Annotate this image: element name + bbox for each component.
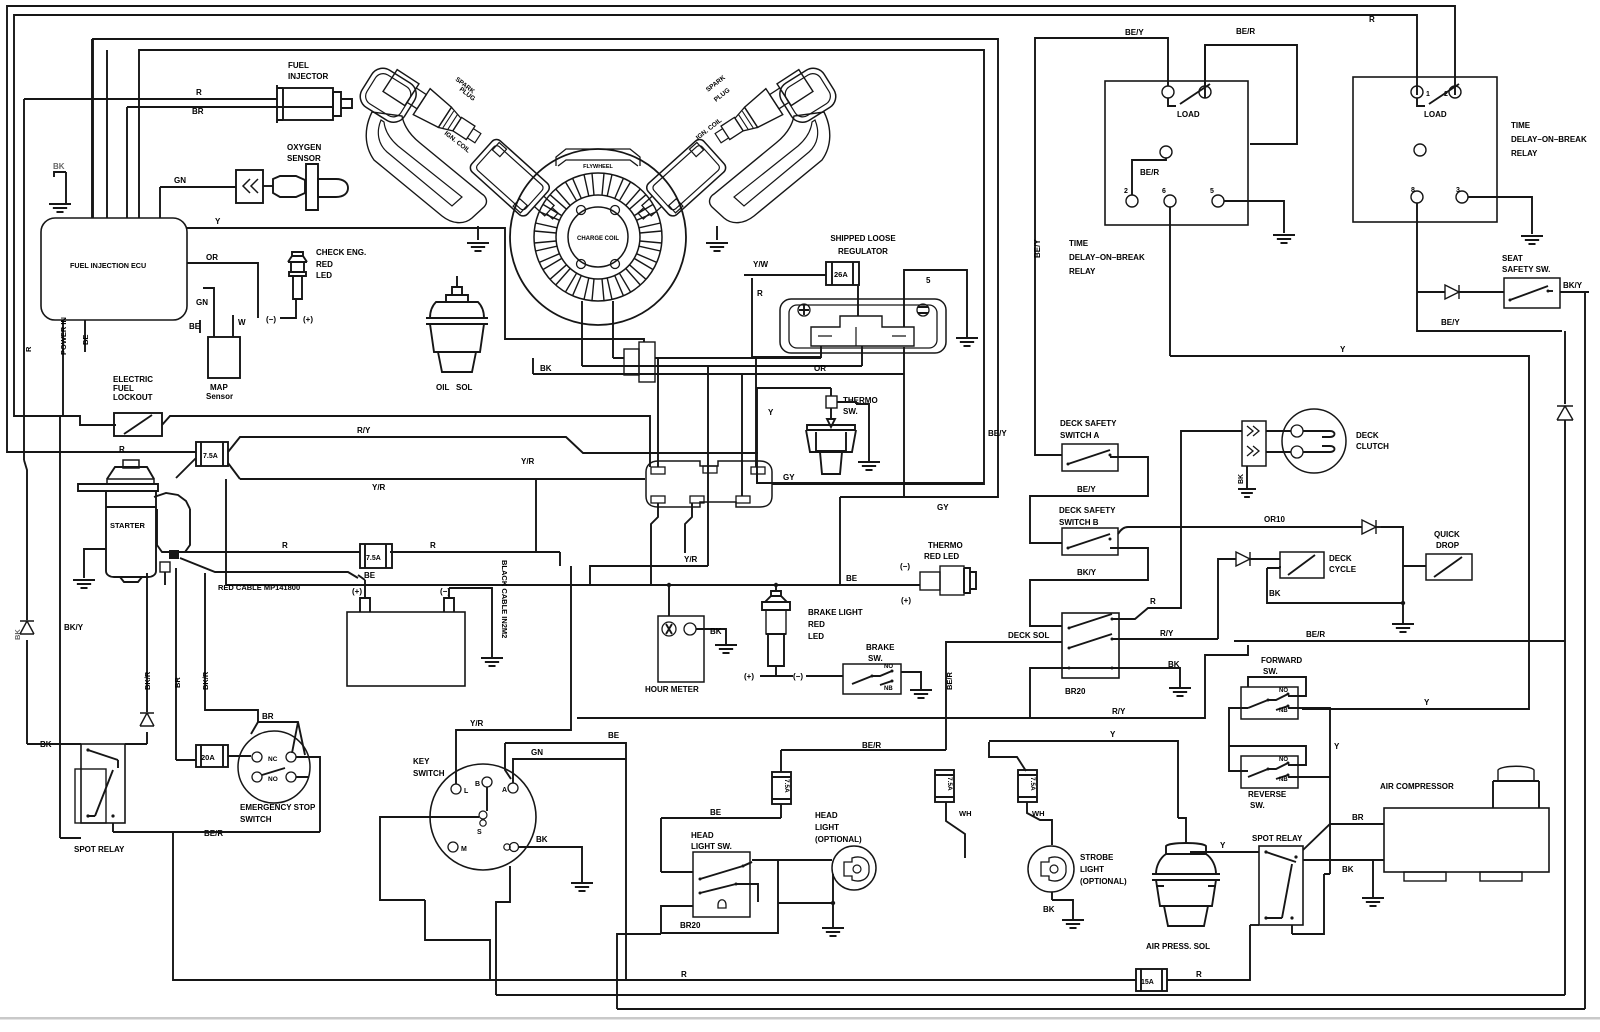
svg-text:SWITCH: SWITCH <box>240 815 272 824</box>
svg-text:STARTER: STARTER <box>110 521 145 530</box>
svg-text:NB: NB <box>884 686 893 692</box>
svg-text:Y/R: Y/R <box>470 719 484 728</box>
wire deck sol bottom loop BR20 <box>1030 668 1069 718</box>
ground air compressor <box>1362 898 1384 906</box>
svg-text:DELAY–ON–BREAK: DELAY–ON–BREAK <box>1069 253 1145 262</box>
svg-text:LIGHT: LIGHT <box>1080 865 1104 874</box>
svg-text:SW.: SW. <box>843 407 858 416</box>
wire OR10 <box>1118 527 1403 566</box>
svg-text:BK: BK <box>1168 660 1180 669</box>
svg-text:WH: WH <box>959 809 972 818</box>
svg-text:M: M <box>461 846 467 853</box>
svg-text:R: R <box>757 289 763 298</box>
svg-text:L: L <box>464 788 469 795</box>
wire starter to fuse2 R <box>180 551 560 553</box>
svg-text:GY: GY <box>937 503 949 512</box>
svg-text:15A: 15A <box>1141 979 1154 986</box>
svg-text:BE: BE <box>710 808 722 817</box>
wire head sw to head light <box>743 860 832 866</box>
svg-text:7.5A: 7.5A <box>783 779 790 793</box>
svg-text:Y: Y <box>1340 345 1346 354</box>
wire spot relay right wires <box>1303 824 1384 850</box>
ignition coil body right <box>628 137 728 233</box>
svg-text:Y: Y <box>1424 698 1430 707</box>
svg-text:NC: NC <box>268 756 278 763</box>
svg-text:(−): (−) <box>793 672 803 681</box>
svg-text:NO: NO <box>884 664 893 670</box>
wire BE gray <box>199 320 201 333</box>
svg-text:BE/Y: BE/Y <box>1033 239 1042 258</box>
svg-text:SW.: SW. <box>868 654 883 663</box>
svg-text:CHARGE COIL: CHARGE COIL <box>577 236 619 242</box>
svg-text:RED: RED <box>808 620 825 629</box>
svg-text:HEAD: HEAD <box>691 831 714 840</box>
wire forward sw loop <box>1248 677 1306 696</box>
svg-text:BE/R: BE/R <box>204 829 223 838</box>
wire connector pin feeds <box>658 358 756 566</box>
svg-text:R: R <box>681 970 687 979</box>
wire W <box>232 315 234 337</box>
wire thermo right to ground <box>837 402 869 462</box>
svg-text:6: 6 <box>1162 188 1166 195</box>
fuse F2 7.5A <box>360 544 392 568</box>
svg-text:RELAY: RELAY <box>1069 267 1096 276</box>
svg-text:BK: BK <box>1238 474 1245 484</box>
svg-text:BK: BK <box>710 627 722 636</box>
wire quick drop to junction <box>1403 565 1426 567</box>
svg-text:BK/Y: BK/Y <box>1077 568 1097 577</box>
box lower mid section <box>839 497 841 585</box>
wire battery to bus <box>559 552 561 566</box>
wire air sol top <box>1178 818 1186 842</box>
svg-text:LED: LED <box>808 632 824 641</box>
engine box inner <box>139 50 984 484</box>
svg-text:Y/R: Y/R <box>521 457 535 466</box>
flywheel bolts <box>577 206 586 215</box>
svg-text:FUEL: FUEL <box>288 61 309 70</box>
wire Y/W to fuse <box>744 274 826 276</box>
svg-text:BE/Y: BE/Y <box>988 429 1007 438</box>
svg-text:R: R <box>282 541 288 550</box>
svg-text:SAFETY SW.: SAFETY SW. <box>1502 265 1550 274</box>
diode D deck cycle <box>1236 552 1250 566</box>
engine box outer <box>93 39 998 497</box>
component MAP sensor <box>208 337 240 378</box>
scan artifact bottom line <box>0 1017 1600 1020</box>
svg-text:CLUTCH: CLUTCH <box>1356 442 1389 451</box>
wire key switch bottom to bus <box>496 866 510 995</box>
svg-text:BE/Y: BE/Y <box>1077 485 1096 494</box>
wire starter branch down <box>147 568 205 585</box>
component thermo switch <box>826 396 837 408</box>
svg-text:SW.: SW. <box>1263 667 1278 676</box>
fuse F4 7.5A vertical <box>772 772 791 804</box>
wire 20A to estop <box>228 755 251 757</box>
svg-text:R/Y: R/Y <box>1112 707 1126 716</box>
wire estop top BR <box>251 722 305 755</box>
svg-text:LED: LED <box>316 271 332 280</box>
fuse 26A <box>826 262 859 285</box>
wire R main perimeter top-left <box>7 6 1455 452</box>
plug boot cap right <box>775 63 841 127</box>
svg-text:ELECTRIC: ELECTRIC <box>113 375 153 384</box>
svg-text:BK: BK <box>1043 905 1055 914</box>
fuse F7 15A <box>1136 969 1167 991</box>
svg-text:MAP: MAP <box>210 383 228 392</box>
wire Y/R lower <box>228 463 645 553</box>
wire riser to spot relay <box>1250 924 1259 926</box>
svg-text:(OPTIONAL): (OPTIONAL) <box>1080 877 1127 886</box>
svg-text:AIR COMPRESSOR: AIR COMPRESSOR <box>1380 782 1454 791</box>
svg-text:26A: 26A <box>834 270 848 279</box>
wire from lockout right east <box>162 416 650 467</box>
svg-text:Y: Y <box>768 408 774 417</box>
svg-text:BR: BR <box>262 712 274 721</box>
wire Y/R to key switch <box>225 479 227 585</box>
svg-text:TIME: TIME <box>1511 121 1531 130</box>
switch key ignition <box>430 764 536 870</box>
svg-text:BE: BE <box>608 731 620 740</box>
wire head light bottom link <box>778 902 833 904</box>
svg-text:DECK: DECK <box>1356 431 1379 440</box>
svg-text:1: 1 <box>1426 91 1430 98</box>
svg-text:DECK SOL: DECK SOL <box>1008 631 1049 640</box>
svg-text:DECK SAFETY: DECK SAFETY <box>1059 506 1116 515</box>
wire to check LED <box>280 299 296 318</box>
wire key switch A GN <box>513 759 626 783</box>
wire deck B loops <box>1030 548 1148 626</box>
wire R to injector <box>23 99 25 460</box>
wire engine bus 3 BK <box>533 347 904 374</box>
wire reverse out <box>1288 776 1330 778</box>
motor starter <box>123 460 139 468</box>
wire starter ground <box>84 549 106 578</box>
spark plug stepped body left <box>381 68 486 151</box>
svg-text:R: R <box>196 88 202 97</box>
diode D left1 <box>20 621 34 634</box>
svg-text:KEY: KEY <box>413 757 430 766</box>
svg-text:Y: Y <box>1110 730 1116 739</box>
svg-text:SPOT RELAY: SPOT RELAY <box>74 845 125 854</box>
svg-text:AIR PRESS. SOL: AIR PRESS. SOL <box>1146 942 1210 951</box>
wire thermo left Y <box>757 388 831 483</box>
plug boot band right <box>710 112 830 223</box>
wire GN to oxygen sensor <box>160 186 236 188</box>
svg-text:HEAD: HEAD <box>815 811 838 820</box>
svg-text:WH: WH <box>1032 809 1045 818</box>
svg-text:LOAD: LOAD <box>1424 110 1447 119</box>
wire BK/Y drop from bus <box>59 416 61 420</box>
wire hour meter BK ground <box>696 629 726 645</box>
svg-text:LOAD: LOAD <box>1177 110 1200 119</box>
svg-text:BK/Y: BK/Y <box>1563 281 1583 290</box>
svg-text:THERMO: THERMO <box>928 541 963 550</box>
svg-text:20A: 20A <box>201 753 215 762</box>
svg-text:BE/R: BE/R <box>1140 168 1159 177</box>
svg-text:SWITCH B: SWITCH B <box>1059 518 1099 527</box>
wire reverse loop <box>1229 746 1306 765</box>
svg-text:BRAKE LIGHT: BRAKE LIGHT <box>808 608 863 617</box>
wire spot relay bottom BE/R <box>113 823 196 832</box>
svg-text:NB: NB <box>1279 708 1288 714</box>
svg-text:GN: GN <box>531 748 543 757</box>
svg-text:INJECTOR: INJECTOR <box>288 72 329 81</box>
svg-text:BR20: BR20 <box>680 921 701 930</box>
svg-text:QUICK: QUICK <box>1434 530 1460 539</box>
wire forward-reverse link <box>1229 708 1330 874</box>
wire fuse5 <box>946 802 965 858</box>
svg-text:LOCKOUT: LOCKOUT <box>113 393 153 402</box>
wire relay2 pin3 ground <box>1468 197 1532 234</box>
plug boot band left <box>366 112 486 223</box>
svg-text:REVERSE: REVERSE <box>1248 790 1287 799</box>
svg-text:GY: GY <box>783 473 795 482</box>
wire BK/R vertical 1 <box>146 585 148 744</box>
wire brake LED bottom <box>760 666 793 676</box>
svg-text:RED LED: RED LED <box>924 552 959 561</box>
relay spot left <box>81 744 125 823</box>
svg-text:SWITCH A: SWITCH A <box>1060 431 1099 440</box>
diode D-right on x1565 <box>1557 406 1573 420</box>
svg-text:7.5A: 7.5A <box>366 555 381 562</box>
svg-text:Y: Y <box>215 217 221 226</box>
svg-text:RED: RED <box>316 260 333 269</box>
svg-text:(+): (+) <box>744 672 754 681</box>
svg-text:OR: OR <box>206 253 218 262</box>
svg-text:Y/W: Y/W <box>753 260 769 269</box>
wire BE bus <box>226 584 920 586</box>
wire GN gray <box>203 288 214 337</box>
LED check engine red <box>288 252 307 262</box>
svg-text:R: R <box>1150 597 1156 606</box>
wire BE/R bottom y980 <box>173 832 1250 980</box>
svg-text:SPOT RELAY: SPOT RELAY <box>1252 834 1303 843</box>
svg-text:S: S <box>477 829 482 836</box>
svg-text:(+): (+) <box>901 596 911 605</box>
svg-text:BE: BE <box>81 335 90 345</box>
svg-text:BR20: BR20 <box>1065 687 1086 696</box>
svg-text:7.5A: 7.5A <box>1029 777 1036 791</box>
fuse F6 7.5A vertical <box>1018 770 1037 802</box>
switch reverse <box>1241 756 1298 788</box>
svg-text:7.5A: 7.5A <box>946 777 953 791</box>
wires out connector bottom <box>651 503 692 585</box>
wire BR vertical <box>176 585 196 760</box>
flywheel label plate <box>556 149 640 166</box>
svg-text:BE: BE <box>189 322 201 331</box>
svg-text:2: 2 <box>1124 188 1128 195</box>
wire GY from connector <box>757 472 984 483</box>
lamp strobe light optional <box>1028 846 1074 892</box>
relay time delay-on-break left K1 <box>1105 81 1248 225</box>
wire head light sw bottom loop BR20 <box>661 860 778 933</box>
wire BE pin <box>84 320 86 352</box>
svg-text:OIL: OIL <box>436 383 449 392</box>
svg-text:TIME: TIME <box>1069 239 1089 248</box>
wire fuse to contact <box>857 286 859 316</box>
wire BR to injector right <box>127 107 334 218</box>
svg-text:BR: BR <box>1352 813 1364 822</box>
svg-text:BE/Y: BE/Y <box>1125 28 1144 37</box>
wire right border riser 2 <box>1560 292 1585 1009</box>
wire BE/R perimeter inner <box>14 15 1417 425</box>
svg-text:Y/R: Y/R <box>372 483 386 492</box>
svg-text:BE/R: BE/R <box>1236 27 1255 36</box>
wire relay1 pin wires <box>1035 38 1168 455</box>
svg-text:3: 3 <box>1456 187 1460 194</box>
wire key switch S left loop <box>380 817 490 980</box>
svg-text:R: R <box>430 541 436 550</box>
svg-text:(−): (−) <box>266 315 276 324</box>
svg-text:B: B <box>475 781 480 788</box>
svg-text:POWER IN: POWER IN <box>59 317 68 355</box>
diode D seat <box>1445 285 1459 299</box>
wire Y/R mid <box>590 566 708 585</box>
ground below left coil <box>477 226 479 240</box>
wire spot relay bottom <box>1292 874 1330 934</box>
wire deck cycle bottom loop BK <box>1267 566 1403 603</box>
svg-text:CYCLE: CYCLE <box>1329 565 1357 574</box>
wire deck sol R top <box>1112 524 1181 619</box>
svg-text:SEAT: SEAT <box>1502 254 1523 263</box>
wire spot relay top wires <box>27 743 147 745</box>
wire fuse4 wires <box>661 750 946 872</box>
wire relay1 pin5 ground <box>1224 201 1284 233</box>
svg-text:BK: BK <box>536 835 548 844</box>
component hour meter <box>658 616 704 682</box>
wire brake sw ground <box>901 672 921 690</box>
svg-text:BRAKE: BRAKE <box>866 643 895 652</box>
wire red cable label <box>180 558 358 578</box>
solenoid deck cycle <box>1280 552 1324 578</box>
wire head light down <box>832 874 834 928</box>
svg-text:R/Y: R/Y <box>1160 629 1174 638</box>
relay time delay-on-break right K2 <box>1353 77 1497 222</box>
battery 12V <box>347 612 465 686</box>
solenoid air pressure <box>1156 854 1216 874</box>
svg-text:FUEL INJECTION ECU: FUEL INJECTION ECU <box>70 261 146 270</box>
svg-text:DELAY–ON–BREAK: DELAY–ON–BREAK <box>1511 135 1587 144</box>
svg-text:OR: OR <box>814 364 826 373</box>
svg-text:BR: BR <box>173 677 182 688</box>
switch emergency stop <box>238 731 310 803</box>
svg-text:A: A <box>502 787 507 794</box>
svg-text:R: R <box>24 346 33 352</box>
svg-text:GN: GN <box>196 298 208 307</box>
svg-text:BK/R: BK/R <box>143 671 152 690</box>
regulator connector body <box>780 299 946 353</box>
wire estop right <box>296 757 320 800</box>
flywheel stator assembly <box>510 149 686 325</box>
svg-text:BK: BK <box>1342 865 1354 874</box>
wire LED to bus <box>840 584 920 586</box>
svg-text:R: R <box>1196 970 1202 979</box>
wire regulator pin5 loop <box>904 270 967 338</box>
wire fuse to starter diagonal <box>176 458 196 478</box>
wire OR from ECU right <box>187 263 258 318</box>
wire key G BK to ground <box>519 847 582 883</box>
spark plug stepped body right <box>710 68 815 151</box>
op-box fuel injection ECU U1 <box>41 218 187 320</box>
svg-text:BE/R: BE/R <box>862 741 881 750</box>
svg-text:8: 8 <box>1411 187 1415 194</box>
fuse F1 7.5A <box>196 442 228 466</box>
svg-text:DECK: DECK <box>1329 554 1352 563</box>
svg-text:SWITCH: SWITCH <box>413 769 445 778</box>
ground below right coil <box>716 226 718 240</box>
wire battery plus <box>358 575 365 598</box>
svg-text:BLACK CABLE IN2M2: BLACK CABLE IN2M2 <box>500 560 509 638</box>
svg-text:RED CABLE MP141800: RED CABLE MP141800 <box>218 583 300 592</box>
fuse F3 20A <box>196 745 228 767</box>
wire deck sol R/Y <box>1112 638 1218 640</box>
svg-text:DECK SAFETY: DECK SAFETY <box>1060 419 1117 428</box>
wire Y to spot relay <box>1190 851 1259 853</box>
wire fuse6 <box>989 742 1052 845</box>
wire relay2 pin8 to seat <box>1417 203 1562 331</box>
svg-text:W: W <box>238 318 246 327</box>
ground regulator <box>956 338 978 346</box>
regulator inner contacts <box>811 316 914 346</box>
svg-text:(−): (−) <box>900 562 910 571</box>
svg-text:BR: BR <box>192 107 204 116</box>
svg-text:BK/Y: BK/Y <box>64 623 84 632</box>
svg-text:OR10: OR10 <box>1264 515 1285 524</box>
connector 6-pin main harness <box>646 461 772 507</box>
svg-text:BK: BK <box>540 364 552 373</box>
wire power in R <box>62 320 64 416</box>
svg-text:FORWARD: FORWARD <box>1261 656 1302 665</box>
wire battery minus to ground <box>449 588 492 658</box>
diode D or10 <box>1362 520 1376 534</box>
svg-text:EMERGENCY STOP: EMERGENCY STOP <box>240 803 316 812</box>
svg-text:NB: NB <box>1279 777 1288 783</box>
svg-text:OXYGEN: OXYGEN <box>287 143 321 152</box>
svg-text:Y/R: Y/R <box>684 555 698 564</box>
wire R regulator left <box>752 278 821 357</box>
svg-text:R: R <box>119 445 125 454</box>
svg-text:BE/R: BE/R <box>945 671 954 690</box>
wire deck cycle junction ground <box>1401 601 1405 605</box>
svg-text:STROBE: STROBE <box>1080 853 1114 862</box>
svg-text:NO: NO <box>1279 688 1288 694</box>
svg-text:CHECK ENG.: CHECK ENG. <box>316 248 366 257</box>
regulator screws <box>798 304 810 316</box>
svg-text:R/Y: R/Y <box>357 426 371 435</box>
svg-text:GN: GN <box>174 176 186 185</box>
svg-text:NO: NO <box>268 776 278 783</box>
clutch deck electric <box>1242 421 1266 466</box>
svg-text:BE: BE <box>846 574 858 583</box>
svg-text:5: 5 <box>1210 188 1214 195</box>
svg-text:Y: Y <box>1334 742 1340 751</box>
svg-text:BK: BK <box>53 162 65 171</box>
ground relay1 pin5 <box>1273 235 1295 243</box>
wire diode feed from deck sol <box>1218 559 1230 639</box>
svg-text:SENSOR: SENSOR <box>287 154 321 163</box>
diode D left2 <box>140 713 154 726</box>
svg-text:(+): (+) <box>303 315 313 324</box>
wire strobe ground BK <box>1052 892 1073 920</box>
svg-text:LIGHT SW.: LIGHT SW. <box>691 842 732 851</box>
wire right edge risers <box>1564 331 1566 995</box>
wire Y long right <box>1170 356 1529 709</box>
wire seat to right border <box>1560 291 1589 293</box>
wire BK left with diode <box>24 460 27 744</box>
plug boot cap left <box>355 63 421 127</box>
svg-text:BE/Y: BE/Y <box>1441 318 1460 327</box>
wire estop loop bottom <box>173 800 320 832</box>
